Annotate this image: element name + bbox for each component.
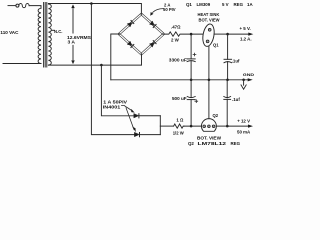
svg-text:BOT. VIEW: BOT. VIEW	[199, 17, 220, 22]
ground bus output arrow	[248, 78, 253, 81]
wire Q2 output	[216, 125, 227, 127]
secondary voltage dimension arrow	[72, 5, 75, 64]
svg-text:3300 uF: 3300 uF	[169, 58, 187, 63]
regulator U2 LM78L12 TO-92 package	[201, 80, 216, 132]
wire U1 output to +5V node	[214, 33, 228, 35]
capacitor C3 .1uf (upper)	[224, 34, 240, 80]
bridge diode D2 (top-right edge)	[150, 21, 156, 27]
svg-text:IN4001: IN4001	[103, 105, 121, 110]
node junction Q1 ground on bus	[208, 79, 211, 82]
svg-text:.1uf: .1uf	[232, 97, 240, 102]
svg-text:50 mA: 50 mA	[237, 129, 251, 134]
node junction .1uf on bus	[226, 79, 229, 82]
label 12.6VRMS 3 A	[67, 35, 91, 44]
transformer T1 core	[44, 3, 47, 68]
transformer T1 primary winding	[38, 8, 41, 63]
svg-text:50 PIV: 50 PIV	[163, 7, 176, 12]
label 1 A 50PIV IN4001 with leader arrows	[103, 99, 136, 132]
node junction GND output on bus	[242, 79, 245, 82]
label N.C. tick	[52, 29, 55, 31]
fuse F1	[8, 4, 41, 9]
svg-text:BOT. VIEW: BOT. VIEW	[197, 135, 221, 140]
wire secondary top to bridge top corner	[48, 4, 141, 15]
svg-text:GND: GND	[243, 72, 254, 77]
capacitor C4 .1uf (lower)	[224, 80, 241, 126]
wire secondary bottom to bridge bottom corner	[48, 54, 141, 65]
diode D5 IN4001 (top)	[134, 114, 161, 118]
svg-text:1 Ω: 1 Ω	[176, 118, 184, 123]
svg-text:1 A 50PIV: 1 A 50PIV	[103, 99, 127, 104]
capacitor C1 3300uF	[169, 34, 196, 80]
svg-text:500 uF: 500 uF	[172, 96, 187, 101]
transformer T1 secondary winding	[48, 4, 51, 65]
wire inner branch secondary-bottom tap to top diode	[101, 65, 133, 116]
node junction 500uF top (ground bus)	[190, 79, 193, 82]
bridge rectifier edges	[118, 13, 164, 55]
+5V output arrow and labels	[228, 26, 254, 42]
svg-text:2 W: 2 W	[171, 38, 180, 43]
wire lower rail to resistor	[160, 125, 173, 127]
+12V output arrow and labels	[227, 118, 253, 134]
node junction 500uF bottom	[190, 125, 193, 128]
node junction 3300uF tap	[190, 33, 193, 36]
label 2 A 50 PIV with leader arrow	[150, 2, 176, 15]
resistor R2 1 ohm 1/2 W	[173, 118, 185, 136]
regulator U1 LM309 TO-3 package	[201, 23, 216, 80]
svg-text:N.C.: N.C.	[54, 29, 62, 34]
svg-text:.1uf: .1uf	[232, 58, 240, 63]
svg-text:3 A: 3 A	[68, 39, 76, 44]
wire bridge left corner to ground bus	[111, 34, 119, 80]
svg-text:+ 12 V: + 12 V	[237, 118, 250, 123]
svg-text:HEAT SINK: HEAT SINK	[198, 12, 220, 17]
node junction .1uf lower tap	[226, 125, 229, 128]
wire outer branch secondary-top tap to bottom diode	[91, 4, 134, 135]
diode D6 IN4001 (bottom)	[134, 133, 160, 137]
wire diode loop right edge	[159, 116, 161, 135]
svg-text:Q2: Q2	[213, 113, 219, 118]
bridge diode D3 (bottom-left edge)	[127, 41, 133, 47]
svg-text:+ 5 V.: + 5 V.	[240, 26, 251, 31]
capacitor C2 500uF	[172, 80, 198, 126]
labels Q2 BOT. VIEW	[197, 113, 221, 141]
bridge diode D4 (bottom-right edge)	[150, 41, 156, 47]
svg-text:Q2LM78L12REG: Q2LM78L12REG	[188, 141, 241, 146]
bridge diode D1 (top-left edge)	[127, 21, 133, 27]
svg-text:1/2 W: 1/2 W	[173, 130, 185, 135]
wire resistor to Q2	[184, 125, 202, 127]
svg-text:.47Ω: .47Ω	[171, 24, 181, 29]
resistor R1 .47 ohm 2 W	[164, 24, 203, 42]
node junction secondary bottom tap	[100, 64, 103, 67]
svg-text:Q1: Q1	[213, 43, 219, 48]
node junction .1uf top tap	[226, 33, 229, 36]
node junction secondary top tap	[90, 2, 93, 5]
svg-text:110 VAC: 110 VAC	[0, 30, 19, 35]
wire primary bottom	[3, 63, 41, 65]
svg-text:Q1LM3095 VREG1A: Q1LM3095 VREG1A	[186, 2, 253, 7]
labels HEAT SINK BOT. VIEW Q1	[198, 12, 220, 48]
ground symbol with GND label	[241, 72, 254, 89]
ground bus	[111, 79, 248, 81]
svg-text:1.2 A.: 1.2 A.	[240, 37, 252, 42]
